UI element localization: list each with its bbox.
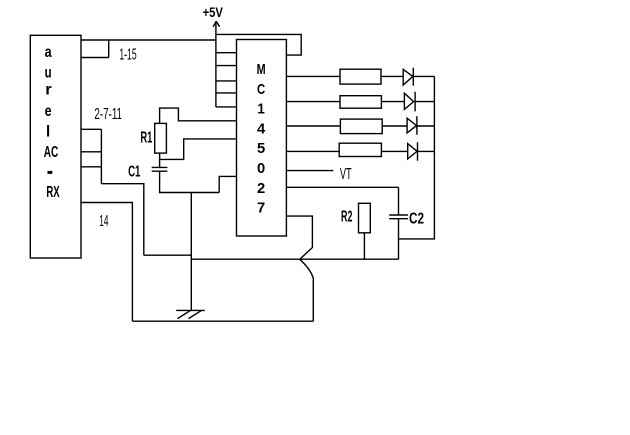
label R1 (140, 130, 152, 147)
capacitor C2 (389, 187, 408, 259)
wire resistor 2 to diode 2 (381, 101, 404, 103)
capacitor C1 (152, 167, 168, 171)
wire bottom pin14 run (132, 320, 313, 322)
svg-text:r: r (45, 81, 52, 98)
wire U1 to R2 C2 network (286, 186, 398, 188)
wire bus right segment (191, 258, 398, 260)
+5V arrow (213, 21, 220, 27)
wire node up to U1 pin (219, 176, 236, 192)
diode D1 (403, 68, 413, 86)
wire bus left segment (144, 254, 192, 256)
svg-text:VT: VT (340, 166, 352, 183)
label C2 (409, 210, 424, 227)
svg-text:+5V: +5V (203, 4, 224, 20)
wire diode 3 to bus (417, 125, 435, 127)
svg-text:M: M (257, 61, 266, 78)
diode D4 (408, 142, 418, 161)
wire resistor 1 to diode 1 (381, 75, 403, 77)
svg-text:RX: RX (46, 184, 59, 201)
wire VT pin (286, 170, 333, 172)
svg-text:a: a (45, 44, 52, 61)
wire R2 bottom to bus (363, 233, 365, 259)
wire diode 4 to bus (418, 150, 435, 152)
svg-text:2-7-11: 2-7-11 (94, 106, 122, 123)
wire U1 to resistor row 1 (286, 75, 340, 77)
label VT (340, 166, 352, 183)
wire resistor 3 to diode 3 (382, 125, 407, 127)
wire 1-15 to +5V rail (81, 39, 216, 41)
pin label 1-15 (119, 47, 136, 64)
svg-text:5: 5 (257, 140, 265, 157)
label MC145027 (vertical) (257, 61, 266, 217)
wire pin14 vertical with jog over bus (286, 216, 313, 321)
svg-text:e: e (45, 103, 52, 120)
wire +5V vertical rail (215, 21, 217, 107)
wire supply rung pin row 1 (216, 52, 237, 54)
svg-text:R2: R2 (341, 208, 352, 225)
resistor row 2 (340, 96, 381, 109)
pin 1-15 notch (81, 40, 109, 58)
wire supply rung pin row 2 (216, 65, 237, 67)
wire C1 bottom to node (160, 171, 220, 192)
wire R1-C1 junction to U1 (160, 139, 237, 160)
svg-text:7: 7 (257, 200, 265, 217)
wire supply rung pin row 4 (216, 92, 237, 94)
diode D2 (404, 92, 415, 112)
svg-text:4: 4 (257, 120, 266, 137)
svg-text:14: 14 (99, 213, 108, 230)
wire +5V top to U1 right notch (216, 34, 301, 55)
svg-text:R1: R1 (140, 130, 152, 147)
ground (176, 310, 205, 318)
wire supply rung pin row 5 (216, 106, 237, 108)
pin 14 notch (81, 203, 132, 322)
wire U1 to resistor row 4 (286, 150, 339, 152)
wire U1 to resistor row 2 (286, 101, 340, 103)
wire 2-7-11 down to bus (101, 184, 143, 256)
IC U1 MC145027 (237, 40, 287, 237)
wire diode 2 to bus (415, 101, 434, 103)
svg-text:1: 1 (257, 101, 264, 118)
svg-text:0: 0 (257, 160, 265, 177)
wire diode cathode bus (399, 76, 435, 239)
label - (hyphen) (48, 171, 53, 174)
wire ground branch (190, 193, 192, 311)
pins 2-7-11 stubs (81, 129, 101, 183)
pin label 14 (99, 213, 108, 230)
label AC (44, 144, 59, 161)
resistor R1 (155, 123, 167, 153)
label R2 (341, 208, 352, 225)
svg-text:u: u (45, 64, 52, 81)
wire supply rung pin row 3 (216, 80, 237, 82)
resistor row 1 (340, 69, 381, 84)
svg-text:AC: AC (44, 144, 59, 161)
svg-text:l: l (46, 123, 50, 140)
svg-text:C2: C2 (409, 210, 424, 227)
svg-text:C1: C1 (128, 164, 140, 181)
receiver module aurel AC-RX (30, 35, 81, 258)
svg-text:C: C (257, 81, 265, 98)
wire R1 bottom to C1 (159, 153, 161, 167)
label RX (46, 184, 59, 201)
label C1 (128, 164, 140, 181)
resistor row 3 (340, 119, 382, 134)
label aurel (vertical letters) (45, 44, 52, 140)
label +5V (203, 4, 224, 20)
wire diode 1 to bus (413, 75, 434, 77)
wire R1 top to U1 (160, 108, 237, 123)
wire U1 to resistor row 3 (286, 125, 340, 127)
wire resistor 4 to diode 4 (381, 150, 407, 152)
svg-text:2: 2 (257, 180, 265, 197)
diode D3 (407, 116, 417, 135)
svg-text:1-15: 1-15 (119, 47, 136, 64)
pin label 2-7-11 (94, 106, 122, 123)
resistor R2 (359, 203, 371, 233)
resistor row 4 (339, 143, 381, 156)
